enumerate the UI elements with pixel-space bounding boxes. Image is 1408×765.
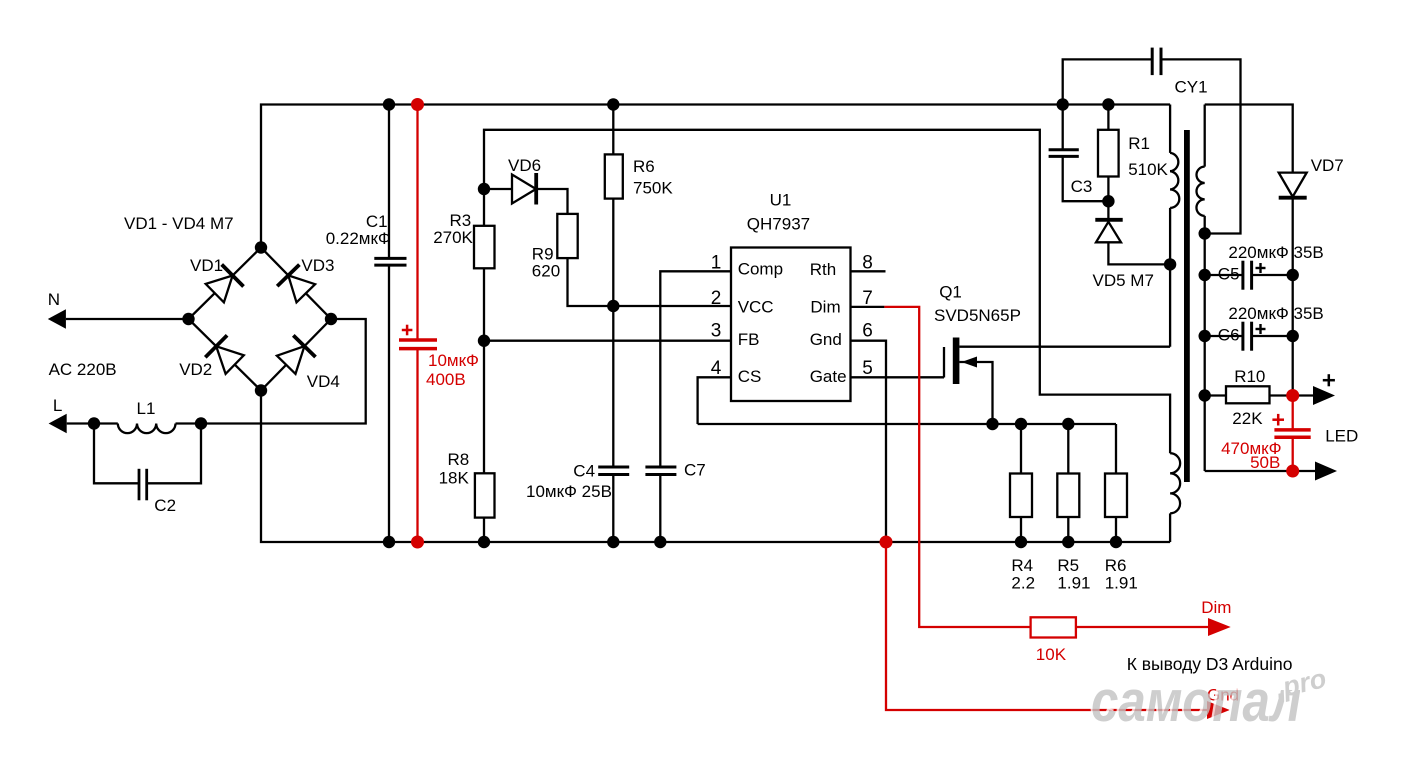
inductor L1: [118, 424, 176, 434]
svg-text:FB: FB: [738, 330, 760, 349]
svg-text:SVD5N65P: SVD5N65P: [934, 306, 1021, 325]
junction R5 bottom on bottom rail: [1062, 536, 1074, 548]
diode VD1: [206, 265, 244, 303]
svg-text:220мкФ 35В: 220мкФ 35В: [1228, 243, 1323, 262]
wire Gnd pin6 to bottom rail: [851, 341, 887, 542]
diode VD6: [512, 175, 536, 204]
wire Dim net (red) from pin7: [884, 307, 1030, 627]
svg-text:1: 1: [711, 253, 722, 274]
svg-text:6: 6: [862, 321, 873, 342]
winding secondary (transformer): [1196, 105, 1204, 472]
junction R3 top / VD6 anode: [478, 183, 490, 195]
resistor R9: [557, 214, 577, 258]
junction Q1 source on sense rail: [986, 418, 998, 430]
wire LED minus: [1205, 470, 1316, 472]
svg-text:1.91: 1.91: [1105, 574, 1138, 593]
svg-text:22K: 22K: [1232, 409, 1263, 428]
junction secondary to CY1: [1199, 227, 1211, 239]
svg-text:N: N: [48, 290, 60, 309]
junction C7 bottom on bottom rail: [654, 536, 666, 548]
svg-text:Q1: Q1: [939, 283, 962, 302]
junction C5 right on plus rail: [1287, 269, 1299, 281]
wire R4 leads: [1020, 424, 1022, 542]
wire CS pin4 to sense rail: [698, 377, 731, 424]
svg-text:C6: C6: [1218, 326, 1240, 345]
junction VD5 anode to primary: [1164, 258, 1176, 270]
resistor R1: [1098, 130, 1119, 177]
svg-text:U1: U1: [770, 191, 792, 210]
junction C6 right on plus rail: [1287, 330, 1299, 342]
resistor R4 sense: [1010, 474, 1032, 518]
svg-text:18K: 18K: [439, 469, 470, 488]
svg-text:10K: 10K: [1036, 645, 1067, 664]
wire R8 to bottom rail: [483, 518, 485, 542]
wire R3 to R8: [483, 268, 485, 473]
wire Q1 source: [959, 362, 992, 424]
svg-text:VD4: VD4: [307, 372, 340, 391]
wire FB pin3 to divider: [484, 340, 731, 342]
node bridge top (+): [255, 241, 267, 253]
wire Q1 drain to primary winding: [959, 346, 1170, 348]
wire L1 to bridge: [176, 319, 366, 424]
diode VD3: [277, 265, 315, 303]
svg-text:Dim: Dim: [1201, 598, 1231, 617]
svg-text:2: 2: [711, 288, 722, 309]
wire C6 left: [1205, 335, 1243, 337]
wire LED plus: [1293, 394, 1314, 396]
capacitor C3: [1049, 150, 1079, 157]
junction C1 bottom on bottom rail: [383, 536, 395, 548]
svg-text:Gnd: Gnd: [810, 330, 842, 349]
capacitor C5: [1243, 261, 1252, 290]
svg-text:750K: 750K: [633, 179, 673, 198]
junction bulk capacitor top (red): [411, 98, 424, 111]
svg-text:C2: C2: [154, 496, 176, 515]
capacitor C2: [139, 469, 147, 501]
wire Gnd net (red): [886, 542, 1207, 710]
transistor Q1 channel bar: [953, 338, 960, 385]
svg-text:C5: C5: [1218, 265, 1240, 284]
capacitor C3 lead: [1062, 105, 1064, 150]
wire C3 bottom to snubber node: [1063, 156, 1109, 201]
polarity plus C5: [1256, 263, 1266, 273]
svg-text:50В: 50В: [1250, 453, 1280, 472]
junction FB divider node: [478, 335, 490, 347]
capacitor C7: [645, 467, 676, 475]
node bridge left (N): [182, 313, 194, 325]
junction C5 left on secondary rail: [1199, 269, 1211, 281]
svg-text:VD3: VD3: [301, 256, 334, 275]
bridge rectifier diamond wires: [189, 248, 332, 391]
resistor 10K (Dim, red): [1031, 617, 1076, 637]
svg-text:270K: 270K: [433, 228, 473, 247]
polarity plus output capacitor: [1272, 414, 1284, 426]
wire R6 sense leads: [1115, 424, 1117, 542]
resistor R8: [475, 473, 495, 517]
svg-text:Dim: Dim: [810, 298, 840, 317]
svg-text:510K: 510K: [1128, 160, 1168, 179]
resistor R6 750K: [605, 154, 623, 198]
svg-text:CY1: CY1: [1175, 78, 1208, 97]
svg-text:Comp: Comp: [738, 260, 783, 279]
svg-text:VD7: VD7: [1311, 156, 1344, 175]
svg-text:AC 220В: AC 220В: [49, 360, 117, 379]
wire C6 right: [1252, 335, 1293, 337]
node bridge right: [325, 313, 337, 325]
wire aux winding to bottom rail: [1169, 513, 1171, 542]
svg-text:R6: R6: [633, 157, 655, 176]
junction C3 top on top rail: [1057, 98, 1069, 110]
svg-text:1.91: 1.91: [1057, 574, 1090, 593]
svg-text:VD1: VD1: [190, 256, 223, 275]
svg-text:R4: R4: [1011, 556, 1033, 575]
junction C1 top on top rail: [383, 98, 395, 110]
arrow N terminal: [48, 309, 66, 328]
junction snubber node C3/R1/VD5: [1102, 195, 1114, 207]
diode VD5 M7: [1095, 201, 1170, 264]
wire Comp pin1 to C7: [660, 271, 731, 467]
polarity plus C6: [1256, 324, 1266, 334]
junction L1 right / C2: [195, 417, 207, 429]
svg-text:C7: C7: [684, 461, 706, 480]
junction R1 top on top rail: [1102, 98, 1114, 110]
svg-text:VD5 M7: VD5 M7: [1093, 271, 1154, 290]
arrow Dim output: [1208, 618, 1231, 636]
svg-text:L1: L1: [137, 399, 156, 418]
wire N input: [66, 318, 189, 320]
wire VCC aux supply net: [484, 130, 1170, 453]
junction R8 bottom on bottom rail: [478, 536, 490, 548]
svg-text:R1: R1: [1128, 134, 1150, 153]
resistor R10: [1226, 386, 1270, 403]
svg-text:VD2: VD2: [179, 360, 212, 379]
arrow Q1 source (into channel): [962, 357, 978, 368]
diode VD7: [1279, 173, 1307, 198]
core transformer: [1184, 130, 1190, 482]
capacitor C output 470uF 50V plates: [1274, 430, 1310, 437]
arrow LED plus terminal: [1313, 386, 1335, 405]
wire bottom rail: [261, 391, 1170, 543]
wire Gate pin5 to Q1: [851, 376, 945, 378]
svg-text:R6: R6: [1105, 556, 1127, 575]
arrow LED minus terminal: [1315, 462, 1337, 481]
svg-text:LED: LED: [1325, 427, 1358, 446]
junction Gnd tap on bottom rail (red): [880, 536, 893, 549]
capacitor C1: [374, 105, 406, 543]
wire Dim to arrow: [1076, 626, 1208, 628]
wire C7 to bottom rail: [659, 475, 661, 543]
IC U1 QH7937 body: [731, 248, 851, 402]
wire R9 to VCC pin: [568, 258, 732, 306]
svg-text:R10: R10: [1234, 367, 1265, 386]
transistor Q1 gate plate: [943, 347, 945, 378]
svg-text:620: 620: [532, 262, 560, 281]
wire VD6 cathode to R9: [536, 189, 567, 214]
svg-text:R8: R8: [448, 450, 470, 469]
wire R6 down to C4: [612, 199, 614, 467]
wire top rail: [261, 105, 1170, 248]
wire current sense rail: [698, 423, 1116, 425]
svg-text:Gate: Gate: [810, 367, 847, 386]
junction R5 top on sense rail: [1062, 418, 1074, 430]
junction R6 sense bottom on bottom rail: [1110, 536, 1122, 548]
node bridge bottom (-): [255, 384, 267, 396]
wire Rth pin8 stub: [851, 270, 886, 272]
svg-text:R5: R5: [1057, 556, 1079, 575]
arrow L terminal: [49, 414, 67, 433]
resistor R6 sense: [1105, 474, 1127, 518]
wire R3 top: [483, 189, 485, 226]
wire R6 top: [612, 105, 614, 155]
wire C2 branch right: [147, 424, 201, 484]
svg-text:3: 3: [711, 321, 722, 342]
junction C6 left on secondary rail: [1199, 330, 1211, 342]
node LED minus output (red): [1286, 465, 1299, 478]
polarity plus of bulk capacitor: [402, 325, 413, 336]
junction L1 left / C2: [88, 417, 100, 429]
svg-text:10мкФ: 10мкФ: [428, 351, 479, 370]
junction bulk capacitor bottom (red): [411, 536, 424, 549]
wire R10 right: [1270, 394, 1293, 396]
junction R10 left on secondary rail: [1199, 389, 1211, 401]
svg-text:4: 4: [711, 358, 722, 379]
wire R5 leads: [1067, 424, 1069, 542]
diode VD2: [205, 335, 244, 374]
svg-text:VD6: VD6: [508, 156, 541, 175]
junction C4 bottom on bottom rail: [607, 536, 619, 548]
capacitor CY1: [1152, 48, 1161, 76]
svg-text:CS: CS: [738, 367, 762, 386]
wire C4 to bottom rail: [612, 475, 614, 543]
svg-text:Rth: Rth: [810, 260, 836, 279]
capacitor C4: [598, 467, 629, 475]
wire C2 branch left: [94, 424, 139, 484]
winding primary (transformer): [1170, 105, 1179, 347]
svg-text:10мкФ 25В: 10мкФ 25В: [526, 482, 612, 501]
resistor R5 sense: [1057, 474, 1079, 518]
resistor R3: [474, 226, 495, 268]
wire R1 top: [1107, 105, 1109, 130]
svg-text:400В: 400В: [426, 370, 466, 389]
svg-text:220мкФ 35В: 220мкФ 35В: [1228, 304, 1323, 323]
winding aux (transformer primary-side auxiliary): [1170, 453, 1180, 513]
svg-text:самопал: самопал: [1091, 669, 1301, 734]
watermark samopal.pro: [1089, 662, 1329, 734]
junction R6 750K top on top rail: [607, 98, 619, 110]
svg-text:C4: C4: [573, 462, 595, 481]
diode VD4: [277, 335, 316, 374]
svg-text:QH7937: QH7937: [747, 215, 810, 234]
junction VCC node at R6: [607, 300, 619, 312]
wire VD7 cathode rail: [1292, 198, 1294, 396]
wire R10 left: [1205, 394, 1226, 396]
junction R4 top on sense rail: [1015, 418, 1027, 430]
capacitor C6: [1243, 322, 1252, 351]
arrow Gnd output: [1207, 701, 1230, 719]
capacitor CY1 wires: [1063, 59, 1241, 233]
node LED plus output (red): [1286, 389, 1299, 402]
svg-text:2.2: 2.2: [1011, 574, 1035, 593]
label plus output: [1323, 374, 1335, 386]
wire C5 right: [1252, 274, 1293, 276]
wire Dim pin7 stub: [851, 306, 885, 308]
capacitor C output 470uF 50V (red) leads: [1292, 396, 1294, 472]
svg-text:5: 5: [862, 358, 873, 379]
wire C5 left: [1205, 274, 1243, 276]
wire R1 bottom: [1107, 177, 1109, 202]
wire VD6 anode: [484, 188, 512, 190]
svg-text:0.22мкФ: 0.22мкФ: [326, 229, 391, 248]
svg-text:C3: C3: [1071, 177, 1093, 196]
wire secondary top to VD7: [1205, 105, 1293, 173]
wire L input: [67, 422, 118, 424]
svg-text:VCC: VCC: [738, 298, 774, 317]
capacitor C bulk 10uF 400V (red electrolytic): [416, 105, 418, 543]
svg-text:L: L: [53, 396, 62, 415]
svg-text:VD1 - VD4 M7: VD1 - VD4 M7: [124, 214, 234, 233]
junction R4 bottom on bottom rail: [1015, 536, 1027, 548]
